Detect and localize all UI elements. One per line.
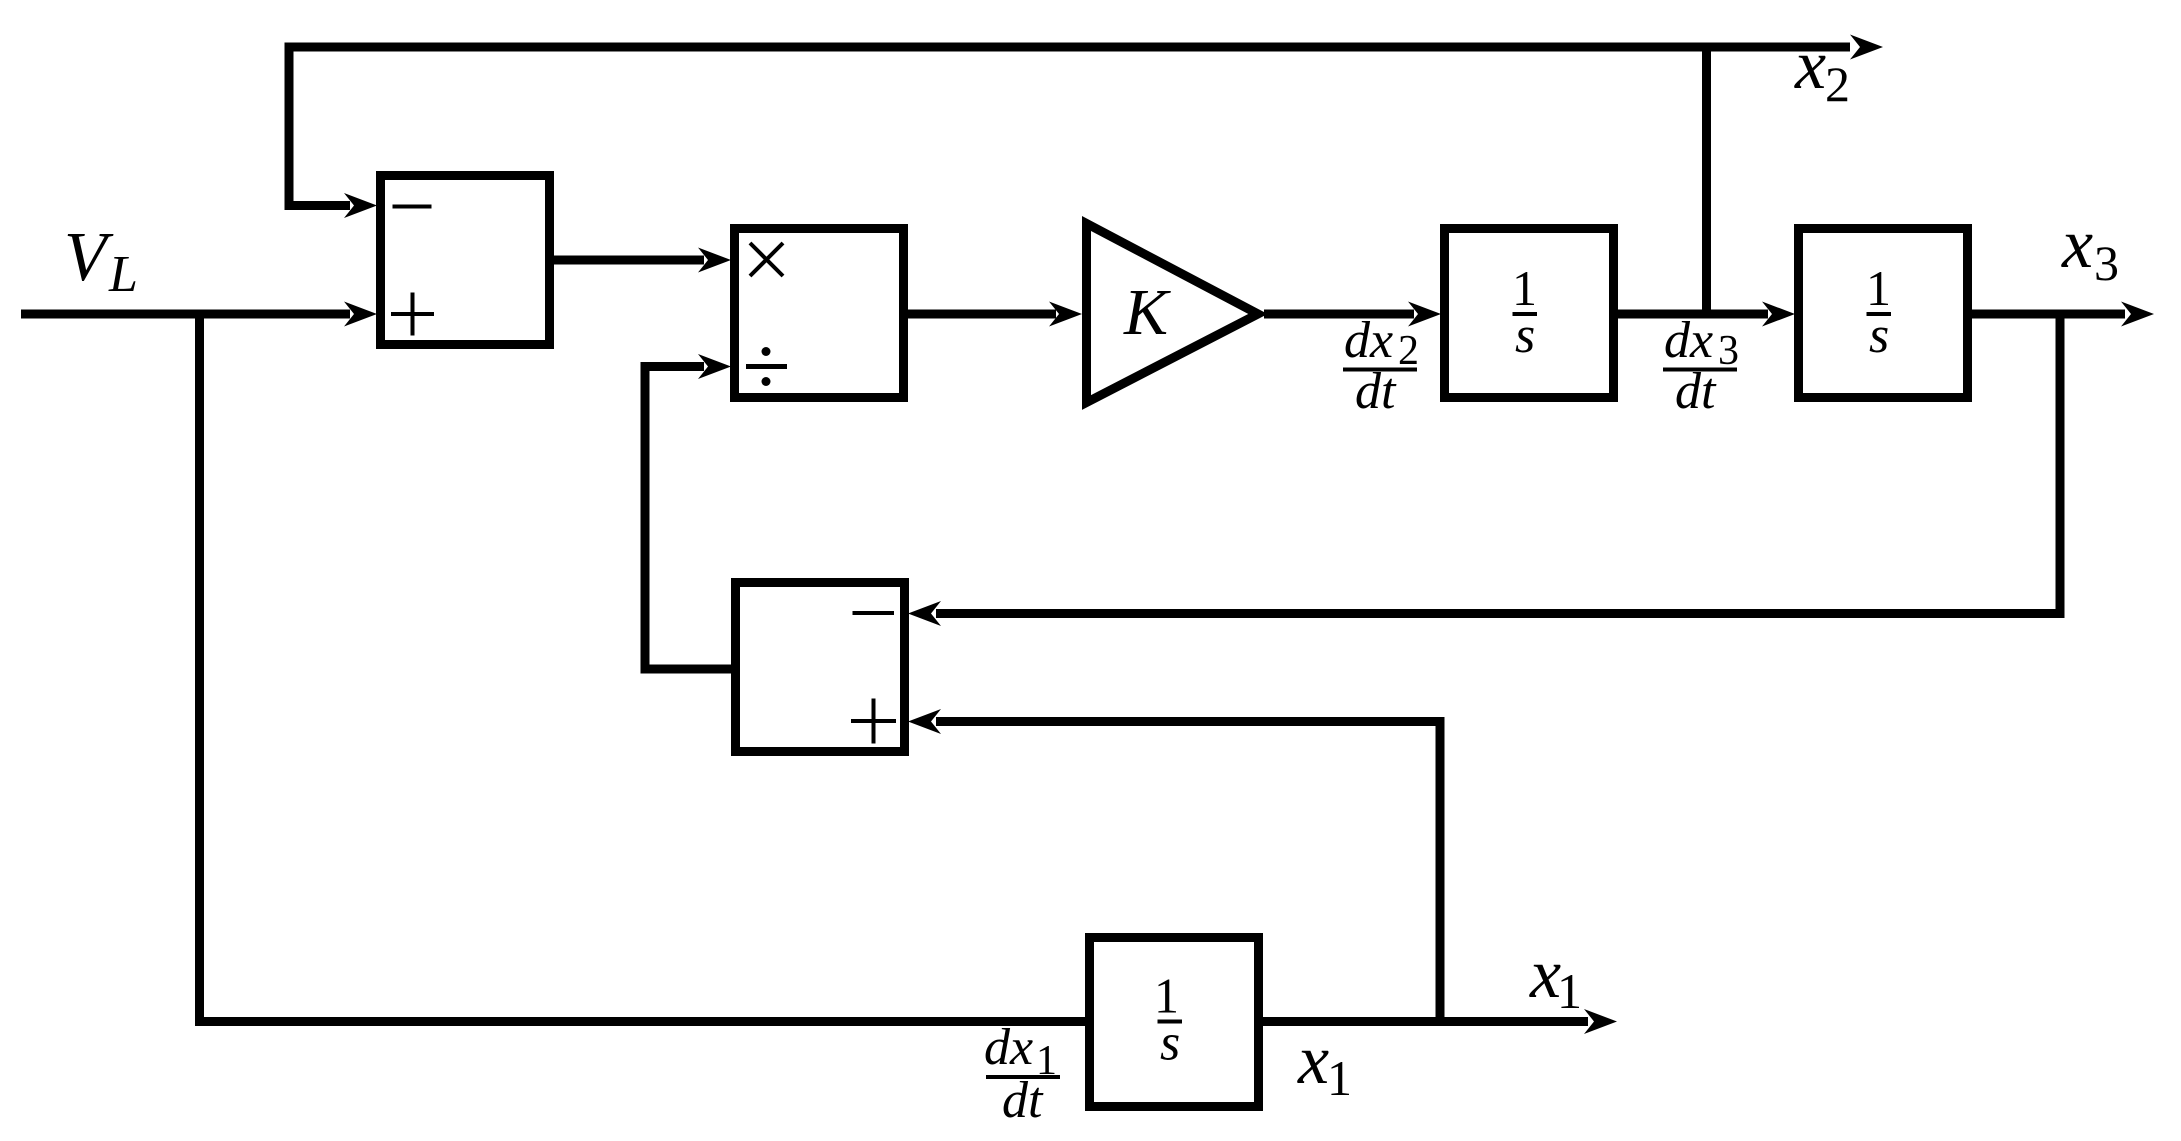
wire multiplier output to K [908, 310, 1056, 319]
svg-text:K: K [1123, 276, 1171, 349]
svg-text:s: s [1515, 307, 1535, 364]
arrow into lower summer plus [908, 709, 941, 734]
svg-text:x: x [1794, 27, 1826, 104]
arrow x3 out [2121, 302, 2154, 327]
svg-text:3: 3 [1718, 328, 1739, 374]
wire upper summer output to multiplier [554, 256, 704, 265]
wire x3 feedback to lower summer minus [936, 314, 2060, 614]
wire x2 branch vertical [1702, 47, 1711, 314]
label dx2/dt [1343, 312, 1419, 420]
svg-text:2: 2 [1825, 56, 1850, 112]
svg-text:s: s [1869, 307, 1889, 364]
arrowheads [344, 35, 2154, 1035]
svg-text:2: 2 [1398, 328, 1419, 374]
arrow x1 out [1584, 1009, 1617, 1034]
wire lower summer output to divider input [645, 367, 731, 670]
wire K output to integrator 1 [1264, 310, 1414, 319]
integrator block 1/s #2 [1799, 229, 1968, 398]
label 1/s block 3 [1154, 968, 1182, 1072]
arrow into integrator 1 [1408, 302, 1441, 327]
arrow into lower summer minus [908, 601, 941, 626]
arrow into upper summer plus [344, 302, 377, 327]
gain triangle K [1087, 224, 1259, 403]
arrow into multiplier x input [698, 248, 731, 273]
svg-text:dt: dt [1675, 363, 1717, 420]
multiplier-divider block [735, 229, 904, 398]
integrator block 1/s #3 [1090, 938, 1259, 1107]
wire VL branch down and bottom line to x1 [200, 314, 1589, 1022]
minus sign upper summer [393, 205, 432, 209]
plus sign lower summer [851, 699, 896, 744]
wire integrator 2 output x3 [1972, 310, 2125, 319]
wire integrator 1 output to integrator 2 [1617, 310, 1768, 319]
wire VL input [21, 310, 350, 319]
times sign multiplier [750, 243, 783, 276]
arrow into integrator 2 [1762, 302, 1795, 327]
plus sign upper summer [391, 293, 434, 336]
svg-text:x: x [2061, 206, 2093, 283]
svg-text:x: x [1297, 1022, 1329, 1099]
svg-text:dt: dt [1002, 1072, 1044, 1129]
arrow into K [1049, 302, 1082, 327]
label VL [64, 219, 138, 303]
svg-text:dx: dx [984, 1019, 1033, 1076]
svg-text:L: L [108, 246, 138, 303]
arrow x2 out [1850, 35, 1883, 60]
label x2 top [1794, 27, 1850, 112]
svg-text:s: s [1160, 1015, 1180, 1072]
label x1 after integrator 3 [1297, 1022, 1352, 1106]
minus sign lower summer [853, 611, 895, 615]
label x1 output [1529, 936, 1582, 1019]
svg-text:1: 1 [1327, 1050, 1352, 1106]
svg-text:dx: dx [1664, 312, 1713, 369]
svg-text:3: 3 [2094, 235, 2119, 291]
wire top feedback x2 to upper summer minus [289, 47, 1850, 206]
label dx1/dt [984, 1019, 1060, 1129]
label x3 right [2061, 206, 2119, 291]
svg-text:V: V [64, 219, 114, 296]
arrow into upper summer minus [344, 193, 377, 218]
svg-text:dx: dx [1344, 312, 1393, 369]
label 1/s block 1 [1512, 260, 1537, 364]
wire x1 feedback to lower summer plus [936, 722, 1440, 1022]
summing block S1 [381, 176, 550, 345]
svg-text:1: 1 [1557, 963, 1582, 1019]
integrator block 1/s #1 [1445, 229, 1614, 398]
label dx3/dt [1663, 312, 1739, 420]
svg-text:dt: dt [1355, 363, 1397, 420]
summing block S2 [736, 583, 905, 752]
arrow into divider input [698, 354, 731, 379]
label 1/s block 2 [1866, 260, 1891, 364]
divide sign [746, 347, 787, 386]
